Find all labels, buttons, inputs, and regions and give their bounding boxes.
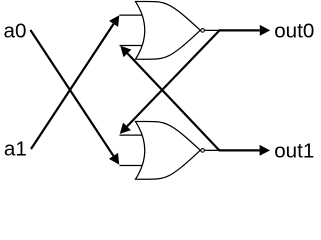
NOR gate U2 (bottom) output stub	[204, 149, 219, 151]
wire out0 horizontal	[220, 29, 260, 31]
wire out1 horizontal	[219, 149, 259, 151]
svg-text:a0: a0	[4, 20, 27, 43]
arrowhead into U2 input B	[109, 153, 119, 165]
wire a0 to U2 input B	[30, 30, 113, 156]
junction out1 net	[218, 149, 220, 151]
NOR gate U1 (top) input stub B	[120, 45, 144, 47]
arrowhead out1	[260, 145, 270, 156]
svg-text:out1: out1	[274, 140, 314, 163]
wire a1 to U1 input A	[31, 24, 114, 149]
NOR gate U2 (bottom) input stub B	[120, 165, 144, 167]
wire out1 feedback to U1 input B	[127, 53, 219, 150]
NOR gate U1 (top) body	[136, 1, 201, 59]
NOR gate U2 (bottom) output bubble	[201, 149, 205, 153]
arrowhead into U1 input B	[120, 46, 131, 57]
svg-text:a1: a1	[4, 138, 27, 161]
NOR gate U1 (top) output stub	[204, 29, 219, 31]
arrowhead into U1 input A	[109, 15, 119, 27]
NOR gate U1 (top) output bubble	[201, 29, 205, 33]
NOR gate U1 (top) input stub A	[120, 14, 144, 16]
NOR gate U2 (bottom) input stub A	[120, 134, 144, 136]
NOR gate U2 (bottom) body	[136, 121, 201, 179]
arrowhead into U2 input A	[120, 123, 131, 134]
junction out0 net	[218, 29, 220, 31]
arrowhead out0	[260, 25, 270, 36]
svg-text:out0: out0	[274, 20, 314, 43]
wire out0 feedback to U2 input A	[127, 30, 219, 126]
